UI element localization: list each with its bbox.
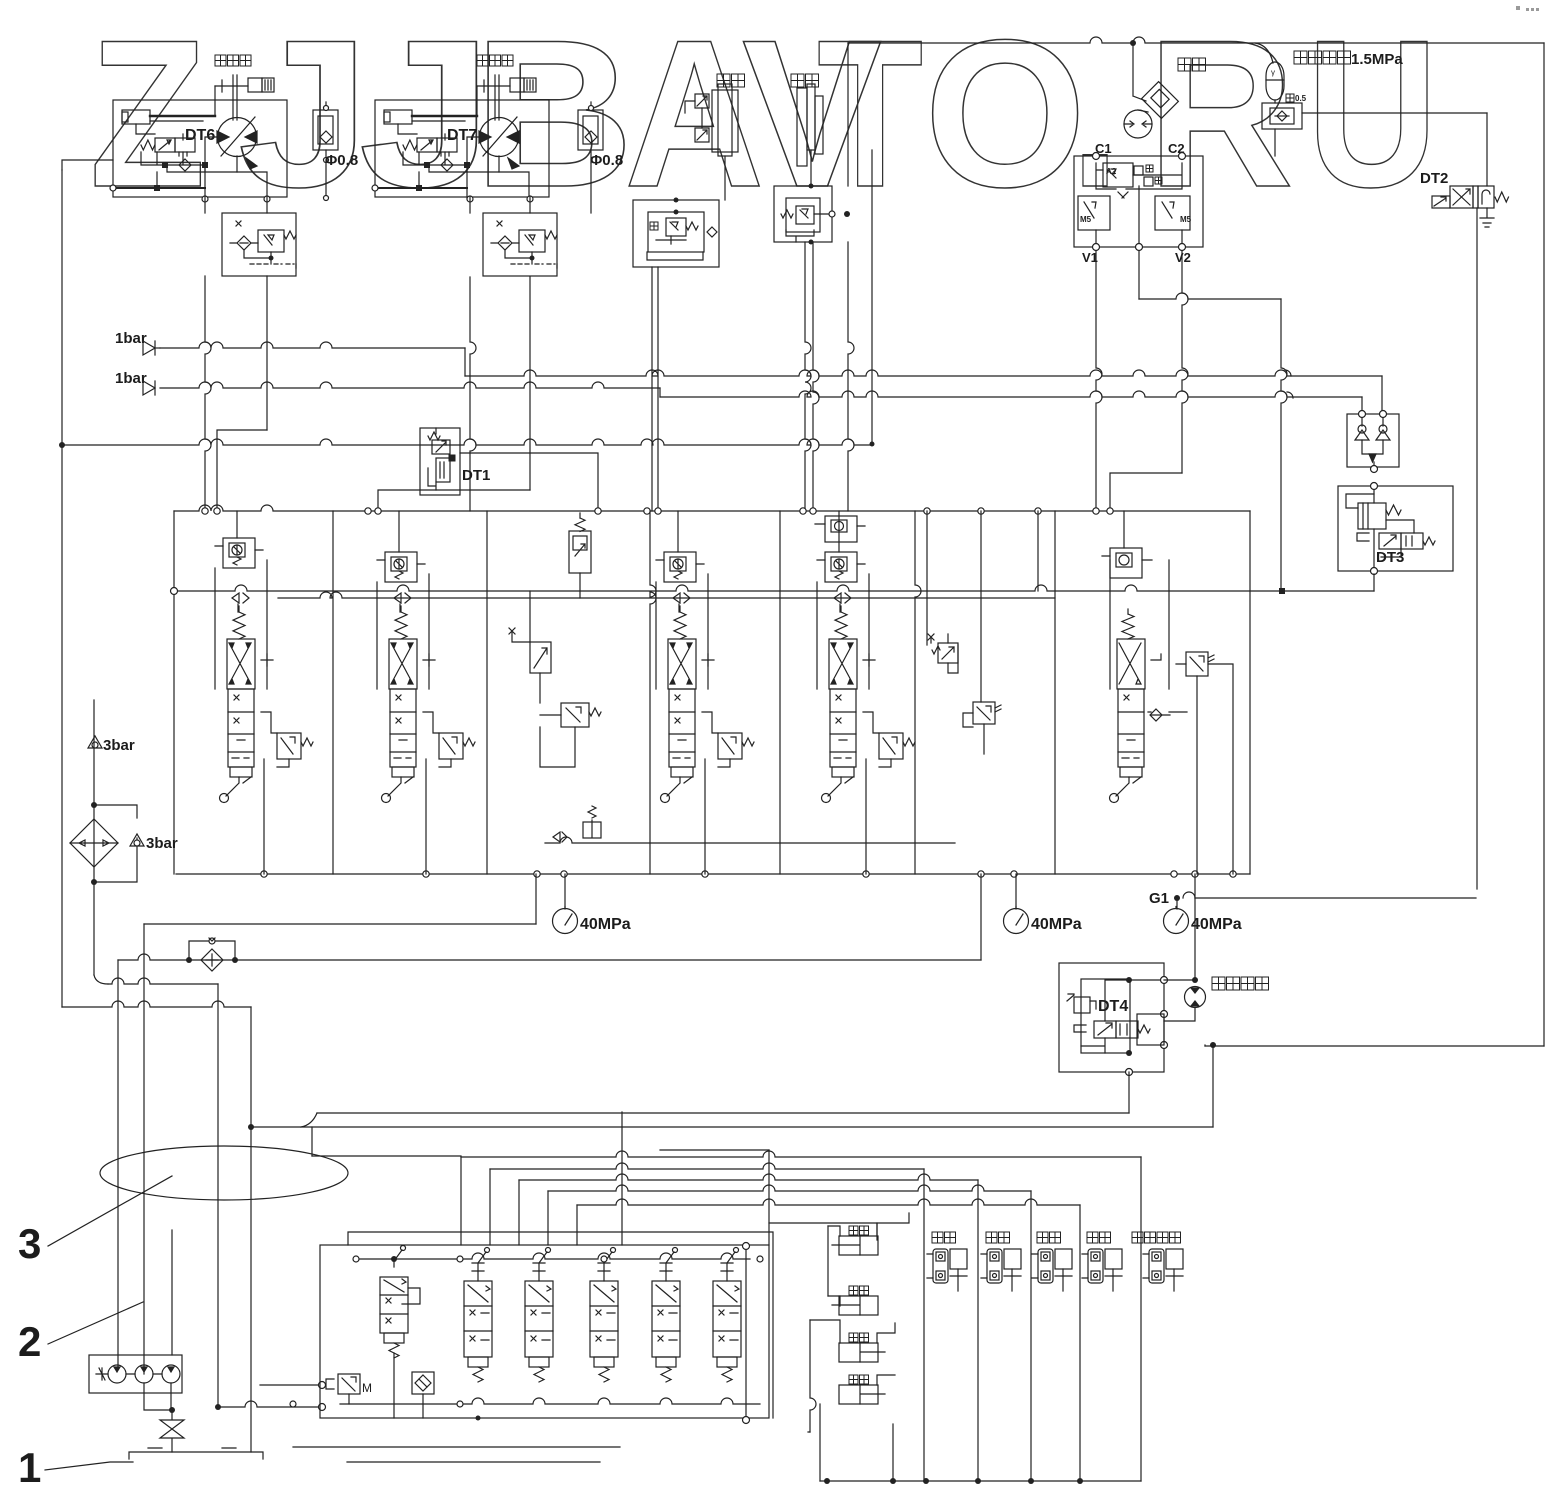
hand valve 1	[464, 1248, 492, 1383]
outrigger bottom stubs	[394, 1353, 423, 1418]
gauge 40MPa mid	[1015, 874, 1017, 909]
bank divider 6	[1054, 511, 1056, 874]
return filter	[70, 819, 118, 867]
luffing balance valve box	[633, 200, 719, 267]
cyl box riser	[769, 1223, 877, 1240]
wire DT6 port circles	[202, 196, 208, 202]
outrigger cyl 左前	[1082, 1232, 1122, 1291]
wire DT1 out	[460, 453, 598, 511]
svg-text:A2: A2	[1106, 167, 1117, 176]
luffing cylinder	[712, 90, 738, 152]
svg-text:40MPa: 40MPa	[580, 916, 631, 933]
bank divider 2	[486, 511, 488, 874]
nitrogen label 充氮压力1.5MPa	[1294, 51, 1351, 64]
wire telescope box down	[805, 242, 811, 511]
svg-text:γ: γ	[1271, 68, 1275, 77]
outrigger relief	[338, 1374, 360, 1394]
svg-text:DT6: DT6	[185, 127, 215, 144]
outrigger cyl 左后	[981, 1232, 1021, 1291]
bank divider 3	[650, 511, 656, 874]
outrigger cyl 第五支腿	[1132, 1232, 1183, 1291]
luffing label 变幅	[717, 74, 745, 87]
wire y960 with bypass	[118, 954, 981, 960]
bank second rail	[278, 592, 1055, 598]
svg-text:3: 3	[18, 1220, 41, 1267]
pump3 feed	[171, 1230, 173, 1355]
ac motor label 空调马达	[1212, 977, 1269, 990]
hand valve 4	[652, 1248, 680, 1383]
wire DT6 to brake box	[205, 197, 267, 213]
right edge vertical	[1543, 43, 1545, 1046]
cylinder feed lines	[460, 1157, 462, 1245]
double check box	[1347, 414, 1399, 467]
wire orifice0.5 right	[1302, 112, 1487, 114]
hand valve 3	[590, 1248, 618, 1383]
pump unit DT7	[375, 100, 549, 199]
outrigger cyl 右前	[1032, 1232, 1072, 1291]
svg-text:40MPa: 40MPa	[1191, 916, 1242, 933]
telescope label 伸缩	[791, 74, 819, 87]
mid-bottom link lines	[312, 1155, 461, 1157]
wire DT2 down	[1476, 208, 1478, 889]
svg-text:DT2: DT2	[1420, 170, 1448, 187]
left main vertical	[61, 170, 63, 1007]
main winch label 主卷扬	[215, 55, 251, 66]
wire top y43	[848, 37, 1544, 43]
valve section 5	[817, 511, 915, 874]
pilot valve DT1	[420, 428, 460, 495]
outrigger main valve	[380, 1246, 420, 1359]
wire DT6 brake down	[205, 276, 211, 511]
pilot line upper cont	[464, 348, 466, 376]
valve section 1 (outrigger sel)	[215, 511, 313, 874]
check 1bar upper	[143, 341, 155, 355]
bank left edge	[173, 511, 175, 874]
main winch pilot cap	[248, 78, 262, 92]
outrigger cyl 右后	[927, 1232, 967, 1291]
svg-text:J: J	[238, 0, 371, 231]
bank divider 5	[915, 511, 921, 874]
tank lines down	[117, 960, 119, 1368]
wire accumulator down	[1274, 129, 1276, 156]
filter bypass 3bar	[94, 805, 137, 882]
section5 aux box	[938, 643, 958, 663]
brake valve box (main winch)	[222, 213, 296, 276]
wire x218 bottom	[215, 1404, 221, 1410]
svg-text:M: M	[362, 1381, 372, 1395]
outrigger block box	[320, 1245, 769, 1418]
telescope cylinder	[797, 88, 807, 166]
bank mid rail	[174, 585, 1374, 591]
wire DT7 brake down	[470, 277, 476, 511]
top pilot valve s6	[1102, 548, 1152, 578]
corner icon	[1516, 6, 1539, 11]
bottom collector	[820, 1480, 1141, 1482]
svg-text:1.5MPa: 1.5MPa	[1351, 51, 1403, 68]
bank bottom rail	[176, 873, 1250, 875]
suction ellipse	[100, 1146, 348, 1200]
orifice Φ0.8 (left)	[313, 110, 338, 150]
orifice Φ0.5 block	[1262, 103, 1302, 129]
pump group box	[89, 1355, 182, 1393]
wire G1 right	[1183, 892, 1195, 898]
svg-text:Φ0.8: Φ0.8	[590, 152, 623, 169]
divider5 stubs	[926, 511, 928, 645]
svg-text:M5: M5	[1180, 215, 1192, 224]
wire 3bar vertical	[93, 700, 95, 975]
wire to outrigger top	[260, 1384, 322, 1386]
return line y1007	[62, 1001, 251, 1007]
pump outlet junction	[144, 1383, 171, 1410]
cyl box 右后	[849, 1226, 869, 1235]
wire checkbox top left	[1285, 370, 1291, 376]
valve section 2	[377, 511, 475, 874]
svg-text:O: O	[924, 0, 1086, 231]
svg-text:U: U	[1307, 0, 1439, 231]
pump unit DT6	[113, 100, 287, 199]
svg-text:Φ0.8: Φ0.8	[325, 152, 358, 169]
link dt4 left	[621, 1112, 623, 1245]
check 3bar upper	[88, 736, 102, 748]
svg-text:M5: M5	[1080, 215, 1092, 224]
svg-text:DT4: DT4	[1098, 998, 1128, 1015]
svg-text:DT1: DT1	[462, 467, 490, 484]
brake valve box (aux winch)	[483, 213, 557, 276]
wire telescope right v	[848, 242, 854, 511]
svg-text:DT7: DT7	[447, 127, 477, 144]
svg-text:1bar: 1bar	[115, 330, 147, 347]
svg-text:3bar: 3bar	[103, 737, 135, 754]
pilot line upper	[160, 342, 465, 348]
wire orifice2 down	[590, 163, 592, 213]
cyl box 左前	[849, 1375, 869, 1384]
svg-text:2: 2	[18, 1318, 41, 1365]
tank symbol	[129, 1448, 263, 1459]
slewing label 回转	[1178, 58, 1206, 71]
wire left edge top	[62, 160, 113, 170]
pump circles	[108, 1365, 126, 1383]
svg-text:B: B	[473, 0, 634, 231]
aux winch pilot cap	[510, 78, 524, 92]
svg-text:0.5: 0.5	[1295, 94, 1307, 103]
bank divider 4	[779, 511, 781, 874]
wire orifice1 down	[325, 160, 327, 198]
cyl box 左后	[849, 1286, 869, 1295]
wire ac out	[1210, 1042, 1216, 1048]
wire C2 jog right	[1138, 251, 1140, 299]
svg-text:G1: G1	[1149, 890, 1169, 907]
check 1bar lower	[143, 381, 155, 395]
slewing brake diamond	[1142, 82, 1179, 119]
wire luffing box down	[651, 267, 653, 511]
svg-text:1bar: 1bar	[115, 370, 147, 387]
cyl boxes wiring	[827, 1226, 829, 1296]
aux winch label 副卷扬	[477, 55, 513, 66]
hand valve 5	[713, 1248, 741, 1383]
svg-text:V2: V2	[1175, 250, 1191, 265]
pilot line y444	[62, 439, 872, 445]
hand valve 2	[525, 1248, 553, 1383]
cyl box 右前	[849, 1333, 869, 1342]
section5 aux relief	[973, 702, 995, 724]
svg-text:40MPa: 40MPa	[1031, 916, 1082, 933]
tank return right	[768, 1150, 770, 1245]
orifice Φ0.8 (right)	[578, 110, 603, 150]
slewing motor	[1124, 110, 1152, 138]
return line y984	[108, 978, 218, 984]
outrigger check diamond	[412, 1372, 434, 1394]
valve section 6	[1110, 560, 1169, 689]
accumulator	[1266, 62, 1284, 100]
wire V2 down	[1182, 251, 1188, 473]
bank top rail	[174, 505, 1250, 511]
svg-text:3bar: 3bar	[146, 835, 178, 852]
pilot line lower	[160, 382, 660, 388]
wire motor top	[1133, 43, 1146, 101]
ac valve block DT4	[1059, 963, 1164, 1072]
wire y924 line	[144, 923, 536, 925]
wire V1 down	[1096, 251, 1102, 511]
wire DT7 to brake box	[470, 197, 530, 213]
outrigger inner rails	[356, 1253, 750, 1259]
valve section 3 regen	[569, 531, 591, 573]
gauge 40MPa left	[564, 874, 566, 909]
holding valve DT3	[1338, 486, 1453, 571]
slewing valve block	[1074, 156, 1203, 247]
cyl unit drops	[923, 1169, 925, 1481]
svg-text:1: 1	[18, 1444, 41, 1491]
valve section 4	[656, 511, 754, 874]
luffing pilot squares	[695, 94, 709, 108]
shutoff valve	[160, 1410, 184, 1452]
wire DT7 port circles	[467, 196, 473, 202]
telescope holding valve box	[774, 186, 832, 242]
bank right edge	[1249, 511, 1251, 874]
bank divider 1	[332, 511, 334, 874]
wire dt4 bottom	[1128, 1072, 1130, 1113]
svg-text:T: T	[817, 0, 923, 231]
section5 second pilot	[815, 516, 865, 542]
ac motor	[1185, 987, 1206, 1008]
